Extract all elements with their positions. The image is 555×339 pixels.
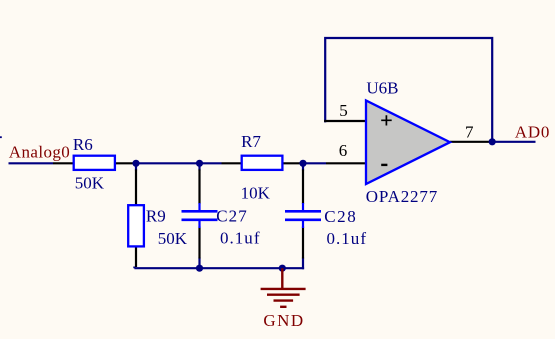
svg-text:0.1uf: 0.1uf bbox=[327, 229, 367, 248]
svg-text:50K: 50K bbox=[158, 229, 188, 248]
svg-text:0.1uf: 0.1uf bbox=[220, 229, 260, 248]
svg-text:R6: R6 bbox=[73, 135, 93, 154]
svg-text:R7: R7 bbox=[241, 132, 261, 151]
svg-text:U6B: U6B bbox=[366, 79, 398, 98]
svg-text:R9: R9 bbox=[146, 207, 166, 226]
svg-text:C28: C28 bbox=[324, 207, 356, 226]
svg-text:GND: GND bbox=[263, 311, 303, 330]
svg-text:5: 5 bbox=[339, 101, 348, 120]
svg-text:50K: 50K bbox=[75, 173, 105, 192]
svg-text:Analog0: Analog0 bbox=[9, 143, 70, 162]
svg-text:AD0: AD0 bbox=[515, 122, 550, 141]
svg-text:10K: 10K bbox=[241, 184, 271, 203]
svg-text:OPA2277: OPA2277 bbox=[366, 187, 438, 206]
svg-text:6: 6 bbox=[339, 141, 348, 160]
svg-text:7: 7 bbox=[465, 122, 474, 141]
svg-text:C27: C27 bbox=[216, 207, 247, 226]
